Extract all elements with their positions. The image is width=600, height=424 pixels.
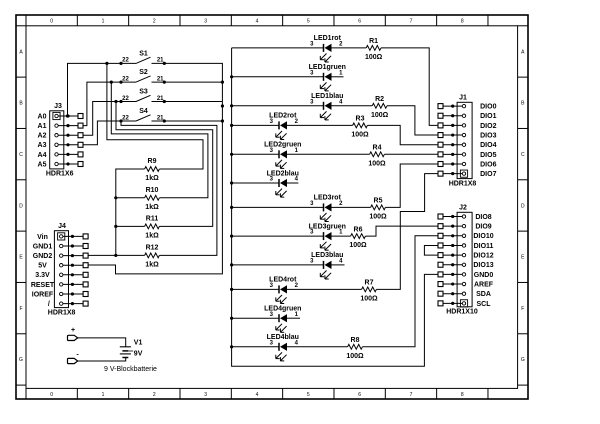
svg-text:J3: J3 — [54, 103, 62, 110]
svg-text:LED4blau: LED4blau — [267, 334, 299, 341]
svg-text:100Ω: 100Ω — [349, 242, 367, 249]
svg-text:A4: A4 — [38, 152, 47, 159]
svg-text:A1: A1 — [38, 123, 47, 130]
svg-text:HDR1X8: HDR1X8 — [48, 309, 76, 316]
svg-text:0: 0 — [50, 392, 53, 398]
svg-text:100Ω: 100Ω — [360, 295, 378, 302]
svg-text:/: / — [48, 301, 50, 308]
svg-text:R11: R11 — [146, 215, 159, 222]
svg-text:100Ω: 100Ω — [351, 131, 369, 138]
svg-text:9 V-Blockbatterie: 9 V-Blockbatterie — [104, 366, 157, 373]
svg-text:S1: S1 — [139, 50, 148, 57]
svg-text:100Ω: 100Ω — [368, 160, 386, 167]
svg-text:R10: R10 — [146, 187, 159, 194]
svg-text:1kΩ: 1kΩ — [145, 175, 159, 182]
svg-text:LED2blau: LED2blau — [267, 170, 299, 177]
svg-text:1kΩ: 1kΩ — [145, 261, 159, 268]
svg-text:G: G — [19, 357, 23, 363]
svg-text:A3: A3 — [38, 142, 47, 149]
svg-text:DIO3: DIO3 — [480, 132, 496, 139]
svg-text:+: + — [71, 327, 75, 334]
svg-text:F: F — [19, 306, 22, 312]
svg-text:SDA: SDA — [476, 291, 491, 298]
svg-text:DIO10: DIO10 — [473, 233, 493, 240]
svg-text:G: G — [521, 357, 525, 363]
svg-text:7: 7 — [410, 392, 413, 398]
svg-text:HDR1X10: HDR1X10 — [446, 309, 478, 316]
svg-text:A5: A5 — [38, 161, 47, 168]
svg-text:IOREF: IOREF — [32, 291, 54, 298]
svg-text:R12: R12 — [146, 244, 159, 251]
svg-text:LED2gruen: LED2gruen — [264, 142, 301, 149]
svg-text:LED3gruen: LED3gruen — [309, 223, 346, 230]
svg-text:0: 0 — [50, 19, 53, 25]
svg-text:LED4rot: LED4rot — [269, 277, 297, 284]
svg-text:R6: R6 — [354, 226, 363, 233]
svg-text:3: 3 — [204, 19, 207, 25]
svg-text:100Ω: 100Ω — [369, 213, 387, 220]
svg-text:DIO12: DIO12 — [473, 253, 493, 260]
svg-text:8: 8 — [461, 392, 464, 398]
svg-text:HDR1X8: HDR1X8 — [449, 180, 477, 187]
svg-text:4: 4 — [256, 19, 259, 25]
svg-text:9V: 9V — [134, 351, 143, 358]
svg-text:S4: S4 — [139, 108, 148, 115]
svg-text:1: 1 — [102, 392, 105, 398]
svg-text:22: 22 — [122, 76, 129, 82]
svg-text:100Ω: 100Ω — [371, 112, 389, 119]
svg-text:22: 22 — [122, 58, 129, 64]
svg-text:4: 4 — [256, 392, 259, 398]
svg-text:S3: S3 — [139, 89, 148, 96]
svg-text:DIO1: DIO1 — [480, 113, 496, 120]
svg-text:1kΩ: 1kΩ — [145, 204, 159, 211]
svg-text:SCL: SCL — [477, 301, 492, 308]
svg-text:RESET: RESET — [31, 282, 55, 289]
svg-text:LED3rot: LED3rot — [314, 195, 342, 202]
svg-text:J4: J4 — [58, 223, 66, 230]
svg-text:R2: R2 — [375, 96, 384, 103]
svg-text:2: 2 — [153, 19, 156, 25]
svg-text:3.3V: 3.3V — [35, 272, 50, 279]
svg-text:DIO2: DIO2 — [480, 123, 496, 130]
svg-text:1kΩ: 1kΩ — [145, 232, 159, 239]
svg-text:LED1blau: LED1blau — [311, 93, 343, 100]
svg-text:J2: J2 — [459, 205, 467, 212]
svg-text:DIO4: DIO4 — [480, 142, 496, 149]
svg-text:3: 3 — [204, 392, 207, 398]
svg-text:6: 6 — [358, 392, 361, 398]
svg-text:R4: R4 — [373, 145, 382, 152]
svg-text:DIO6: DIO6 — [480, 161, 496, 168]
svg-text:7: 7 — [410, 19, 413, 25]
svg-text:GND0: GND0 — [474, 272, 494, 279]
svg-text:2: 2 — [153, 392, 156, 398]
svg-text:R8: R8 — [351, 337, 360, 344]
svg-text:LED3blau: LED3blau — [311, 252, 343, 259]
svg-text:GND1: GND1 — [33, 243, 53, 250]
svg-text:DIO0: DIO0 — [480, 104, 496, 111]
svg-text:DIO9: DIO9 — [475, 224, 491, 231]
svg-text:R9: R9 — [148, 158, 157, 165]
svg-text:6: 6 — [358, 19, 361, 25]
svg-text:LED2rot: LED2rot — [269, 113, 297, 120]
svg-text:F: F — [521, 306, 524, 312]
svg-text:A0: A0 — [38, 113, 47, 120]
svg-text:100Ω: 100Ω — [346, 353, 364, 360]
svg-text:A2: A2 — [38, 133, 47, 140]
svg-text:8: 8 — [461, 19, 464, 25]
svg-text:V1: V1 — [134, 340, 143, 347]
svg-text:HDR1X6: HDR1X6 — [46, 171, 74, 178]
svg-text:C: C — [19, 152, 23, 158]
svg-text:DIO11: DIO11 — [474, 243, 494, 250]
svg-text:J1: J1 — [459, 95, 467, 102]
svg-text:DIO7: DIO7 — [480, 171, 496, 178]
svg-text:22: 22 — [122, 115, 129, 121]
svg-text:5: 5 — [307, 19, 310, 25]
svg-text:Vin: Vin — [37, 234, 48, 241]
svg-text:R7: R7 — [365, 280, 374, 287]
svg-text:R3: R3 — [356, 116, 365, 123]
svg-text:D: D — [521, 203, 525, 209]
svg-text:DIO5: DIO5 — [480, 152, 496, 159]
svg-text:GND2: GND2 — [33, 253, 53, 260]
svg-text:LED4gruen: LED4gruen — [264, 306, 301, 313]
svg-text:22: 22 — [122, 96, 129, 102]
svg-text:C: C — [521, 152, 525, 158]
svg-text:DIO8: DIO8 — [475, 214, 491, 221]
svg-text:100Ω: 100Ω — [365, 54, 383, 61]
svg-text:R1: R1 — [369, 38, 378, 45]
svg-text:DIO13: DIO13 — [473, 262, 493, 269]
svg-text:D: D — [19, 203, 23, 209]
svg-text:5V: 5V — [38, 263, 47, 270]
svg-text:LED1gruen: LED1gruen — [309, 64, 346, 71]
svg-text:5: 5 — [307, 392, 310, 398]
svg-text:S2: S2 — [139, 69, 148, 76]
svg-text:1: 1 — [102, 19, 105, 25]
svg-text:LED1rot: LED1rot — [314, 35, 342, 42]
svg-text:AREF: AREF — [474, 281, 494, 288]
svg-text:R5: R5 — [374, 198, 383, 205]
